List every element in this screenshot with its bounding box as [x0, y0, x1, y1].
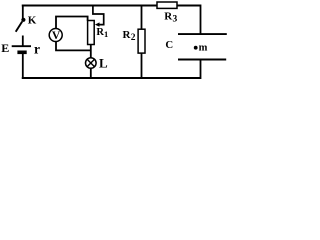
svg-text:V: V [52, 30, 61, 42]
wire R1 to lamp [90, 45, 92, 59]
rheostat R1 [88, 6, 109, 45]
wire switch to battery [22, 36, 24, 47]
wire top-right corner down to capacitor [200, 5, 202, 34]
svg-text:L: L [99, 55, 108, 70]
voltmeter bottom branch wire [56, 41, 91, 50]
lamp L [86, 55, 109, 70]
battery E r [1, 41, 40, 57]
resistor R3 [157, 2, 178, 25]
svg-text:R3: R3 [164, 10, 177, 24]
svg-text:r: r [34, 42, 40, 57]
wire left upper [22, 5, 24, 19]
svg-text:C: C [165, 39, 173, 51]
voltmeter U (V) [49, 29, 62, 42]
resistor R2 [123, 6, 146, 79]
wire lamp to bottom [90, 68, 92, 79]
wire battery to bottom corner [22, 53, 24, 79]
capacitor C plates [165, 34, 226, 59]
wire top [22, 5, 201, 7]
particle m [194, 42, 208, 53]
svg-text:m: m [199, 42, 208, 53]
wire capacitor to bottom [200, 60, 202, 80]
voltmeter top branch wire [56, 17, 88, 30]
svg-text:R1: R1 [96, 27, 108, 39]
svg-text:R2: R2 [123, 29, 136, 43]
svg-text:K: K [28, 14, 37, 26]
svg-text:E: E [1, 41, 9, 55]
wire bottom [22, 77, 201, 79]
switch K [16, 14, 37, 31]
